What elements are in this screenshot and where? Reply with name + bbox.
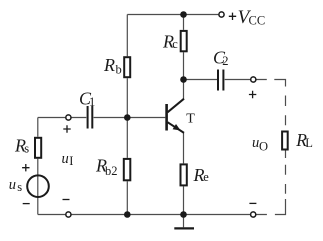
transistor T emitter arrow <box>173 124 181 131</box>
svg-text:R: R <box>103 55 115 75</box>
svg-text:u: u <box>62 151 69 167</box>
resistor Rb2 <box>124 159 131 180</box>
junction dot collector node <box>180 76 187 83</box>
label Rb <box>103 55 122 77</box>
terminal output bottom <box>251 212 256 217</box>
plus output <box>249 91 256 98</box>
wire bottom rail <box>38 214 267 216</box>
wire emitter vertical <box>183 133 185 215</box>
resistor Rs <box>35 138 41 158</box>
label us <box>9 177 23 194</box>
wire Rb branch vertical <box>126 15 128 215</box>
label Rs <box>14 136 29 156</box>
wire C2 row <box>184 79 267 81</box>
junction dot base node <box>124 114 131 121</box>
terminal VCC <box>219 12 224 17</box>
resistor Rb <box>124 57 130 77</box>
wire input top row <box>38 117 166 119</box>
svg-text:O: O <box>259 139 268 153</box>
label uO <box>252 135 268 153</box>
junction dot Rb2 bottom <box>124 211 131 218</box>
junction dot top rail <box>180 11 187 18</box>
label T <box>186 111 195 126</box>
svg-text:s: s <box>17 180 22 194</box>
svg-text:L: L <box>305 136 313 150</box>
wire ground stub <box>183 215 185 228</box>
transistor T emitter diagonal <box>168 122 185 133</box>
svg-text:e: e <box>203 170 209 184</box>
svg-text:CC: CC <box>249 14 266 28</box>
terminal input top <box>66 115 71 120</box>
plus input <box>63 125 70 132</box>
label C1 <box>79 89 95 110</box>
transistor T base bar <box>165 104 168 131</box>
wire source branch vertical <box>37 118 39 215</box>
resistor Rc <box>181 31 187 51</box>
plus source <box>22 164 29 171</box>
source us circle <box>27 175 49 197</box>
minus source <box>23 203 30 205</box>
resistor RL <box>282 132 288 150</box>
minus output <box>249 202 256 204</box>
label C2 <box>213 48 228 69</box>
resistor Re <box>181 164 187 185</box>
label Re <box>193 165 210 185</box>
wire dashed output bottom corner <box>275 151 286 215</box>
svg-text:b: b <box>116 63 122 77</box>
wire collector branch vertical <box>183 15 185 100</box>
label Rc <box>162 32 178 52</box>
capacitor C2 plates <box>218 70 223 91</box>
transistor T collector diagonal <box>168 99 185 113</box>
svg-text:b2: b2 <box>105 164 118 178</box>
svg-text:T: T <box>186 111 195 126</box>
terminal input bottom <box>66 212 71 217</box>
label +VCC <box>229 7 265 28</box>
label Rb2 <box>95 156 118 179</box>
junction dot ground node <box>180 211 187 218</box>
label uI <box>62 151 74 168</box>
minus input <box>63 199 70 201</box>
svg-text:I: I <box>69 154 73 168</box>
svg-text:2: 2 <box>222 54 228 68</box>
svg-text:s: s <box>24 142 29 156</box>
wire top rail <box>127 14 218 16</box>
capacitor C1 plates <box>88 106 93 129</box>
svg-text:c: c <box>172 37 178 51</box>
ground bar <box>174 227 194 229</box>
svg-text:1: 1 <box>89 95 95 109</box>
svg-text:u: u <box>9 177 16 193</box>
terminal output top <box>251 77 256 82</box>
wire dashed output top corner <box>274 80 285 126</box>
label RL <box>295 130 313 150</box>
